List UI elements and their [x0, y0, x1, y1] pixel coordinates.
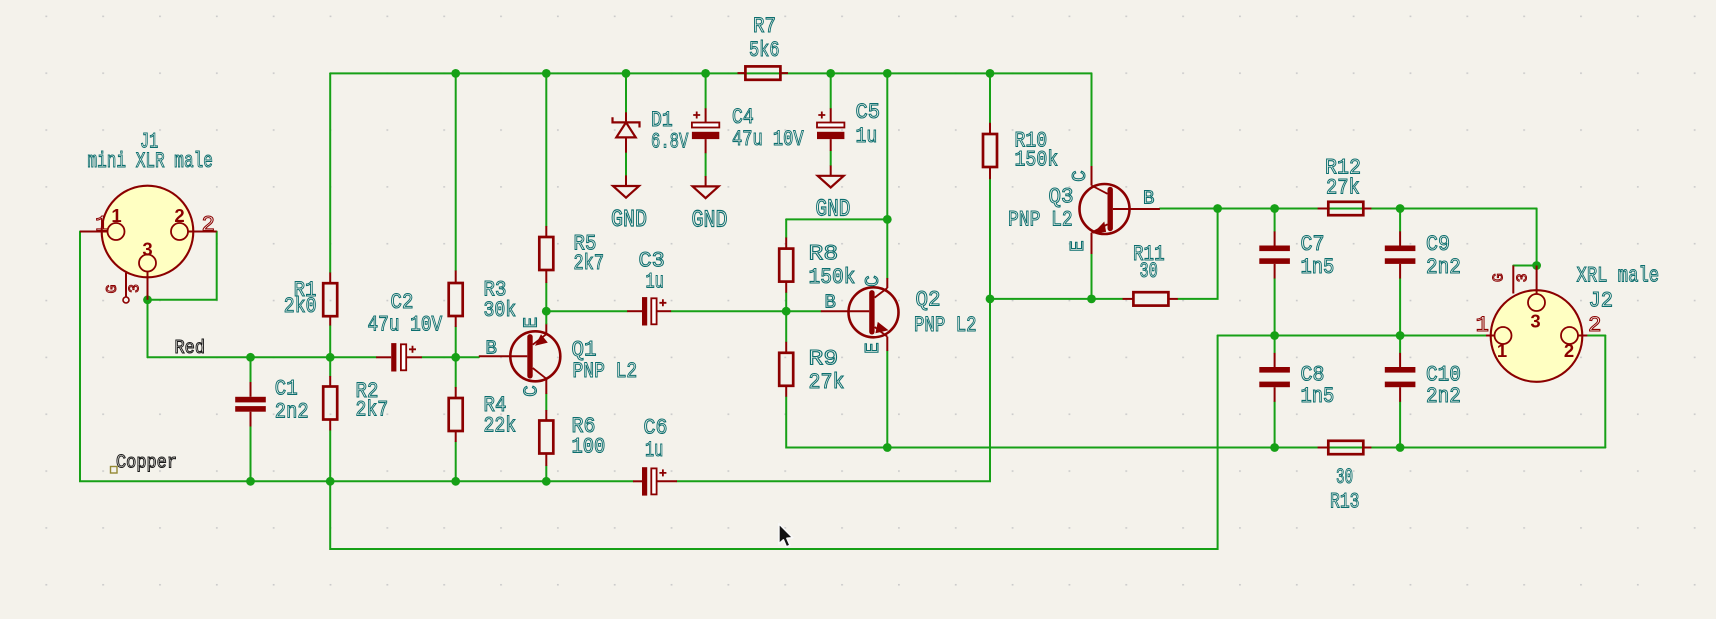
svg-text:G: G	[104, 284, 121, 293]
svg-text:G: G	[1491, 273, 1508, 282]
node R5/Q1E/C3	[542, 307, 551, 316]
node lower bus/C8	[1270, 443, 1279, 452]
svg-text:2: 2	[1564, 340, 1574, 361]
capacitor C7	[1274, 231, 1276, 245]
node Copper/R4	[451, 477, 460, 486]
svg-text:3: 3	[1515, 273, 1532, 282]
svg-text:B: B	[825, 292, 836, 314]
node Q2 base divider	[782, 307, 791, 316]
resistor R13	[1318, 447, 1329, 449]
svg-text:30k: 30k	[484, 298, 517, 323]
node base rail/R11 riser	[1213, 204, 1222, 213]
wire J2 pin2 stub	[1587, 335, 1605, 337]
node Red/C1	[246, 353, 255, 362]
svg-text:1: 1	[1476, 312, 1490, 338]
wire Q3 emitter down	[1091, 254, 1093, 299]
node top/C4	[701, 69, 710, 78]
svg-text:2k7: 2k7	[574, 251, 605, 276]
svg-text:C7: C7	[1301, 232, 1325, 257]
wire D1 to GND	[625, 153, 627, 176]
resistor R6	[545, 410, 547, 421]
svg-text:C1: C1	[275, 377, 298, 402]
wire R6 bottom	[545, 466, 547, 481]
svg-text:2: 2	[202, 212, 216, 238]
node lower bus/Q2E	[883, 443, 892, 452]
svg-text:Q3: Q3	[1049, 185, 1074, 210]
resistor R12	[1318, 208, 1329, 210]
wire Copper net run	[251, 480, 634, 482]
wire C8 top	[1274, 336, 1276, 353]
node top/C5	[826, 69, 835, 78]
wire R5 column upper	[545, 73, 547, 226]
svg-text:PNP L2: PNP L2	[1008, 208, 1073, 233]
node Q3E/R11	[1087, 295, 1096, 304]
capacitor C9	[1399, 231, 1401, 245]
svg-text:C: C	[862, 275, 884, 286]
svg-text:1: 1	[95, 212, 109, 238]
wire C5 top	[830, 73, 832, 108]
J2 pin G	[1512, 266, 1514, 294]
svg-text:150k: 150k	[809, 265, 856, 290]
wire J1 pin3 node down	[147, 300, 149, 358]
svg-text:C5: C5	[856, 100, 881, 125]
capacitor C6	[633, 480, 642, 482]
wire Red net run	[148, 356, 377, 358]
svg-text:150k: 150k	[1015, 148, 1059, 173]
node top/R3	[451, 69, 460, 78]
J1 pin G (open)	[125, 273, 127, 297]
transistor Q1	[510, 331, 560, 381]
node Copper/R6	[542, 477, 551, 486]
wire J2 pin2 drop	[1604, 336, 1606, 448]
svg-text:22k: 22k	[484, 414, 517, 439]
wire C1 bottom	[250, 427, 252, 482]
wire J1 pin1 down left edge	[80, 232, 251, 482]
node mid row/C9C10	[1396, 331, 1405, 340]
node J1 pin2-pin3	[143, 295, 152, 304]
wire C10 bottom	[1399, 402, 1401, 448]
svg-text:1n5: 1n5	[1301, 255, 1335, 280]
node Red/R1R2	[326, 353, 335, 362]
wire R4 bottom	[455, 442, 457, 481]
capacitor C10	[1399, 353, 1401, 367]
svg-text:30: 30	[1140, 259, 1158, 284]
resistor R5	[545, 226, 547, 237]
resistor R10	[989, 123, 991, 134]
svg-text:100: 100	[572, 435, 606, 460]
capacitor C2	[376, 356, 391, 358]
svg-text:2: 2	[1588, 312, 1602, 338]
wire C6 to R10 node riser	[677, 299, 990, 481]
wire R8 top	[785, 219, 787, 237]
wire mid row to J2 pin1	[1218, 335, 1486, 337]
wire C5 to GND	[830, 151, 832, 166]
resistor R1	[329, 273, 331, 284]
svg-text:1n5: 1n5	[1301, 384, 1335, 409]
wire D1 top	[625, 73, 627, 112]
node top/R10	[986, 69, 995, 78]
node R10/R11	[986, 295, 995, 304]
power symbol GND (C5)	[830, 166, 832, 176]
svg-text:2k0: 2k0	[284, 294, 317, 319]
wire R5 bottom to Q1 emitter node	[545, 283, 547, 311]
wire C9 bottom	[1399, 279, 1401, 336]
wire R10 node to R11	[990, 298, 1123, 300]
wire C10 top	[1399, 336, 1401, 353]
J2 pin 3	[1536, 266, 1538, 295]
resistor R2	[329, 376, 331, 387]
wire R9 bottom L-run	[786, 397, 887, 448]
node base rail/C7	[1270, 204, 1279, 213]
svg-text:Copper: Copper	[116, 452, 177, 474]
J1 pin 2	[188, 231, 217, 233]
node Copper/R2	[326, 477, 335, 486]
svg-text:GND: GND	[611, 207, 647, 234]
zener diode D1	[625, 112, 627, 121]
wire long return run bottom	[330, 336, 1217, 550]
capacitor C4	[705, 108, 707, 122]
svg-text:GND: GND	[692, 208, 728, 235]
svg-text:1u: 1u	[646, 270, 664, 295]
wire C3 to Q2 base	[671, 310, 821, 312]
svg-text:J2: J2	[1589, 289, 1614, 314]
svg-text:E: E	[862, 342, 884, 353]
svg-text:E: E	[1067, 240, 1089, 251]
node GND wire/Q2 collector	[883, 215, 892, 224]
wire C7 bottom	[1274, 279, 1276, 336]
capacitor C3	[627, 310, 642, 312]
svg-text:Red: Red	[175, 337, 206, 359]
wire Q2 collector column	[886, 73, 888, 278]
J2 pin 2	[1578, 335, 1587, 337]
svg-text:C: C	[521, 385, 543, 396]
wire Q2 emitter down	[886, 351, 888, 448]
resistor R4	[455, 387, 457, 398]
wire R1 column upper	[329, 73, 331, 272]
svg-text:R7: R7	[753, 14, 776, 39]
svg-text:27k: 27k	[1326, 176, 1360, 201]
svg-text:1: 1	[1497, 340, 1507, 361]
svg-text:C2: C2	[391, 290, 414, 315]
wire J2 ground pin tie	[1513, 265, 1536, 267]
svg-text:GND: GND	[816, 197, 851, 224]
svg-text:PNP L2: PNP L2	[573, 359, 638, 384]
wire Q3 base rail	[1160, 208, 1537, 210]
svg-text:2: 2	[174, 205, 184, 226]
capacitor C1	[250, 382, 252, 397]
wire Q1 collector to R6	[545, 394, 547, 410]
wire base node to R9 top	[785, 311, 787, 342]
wire C1 top	[250, 357, 252, 382]
power symbol GND (D1)	[625, 175, 627, 186]
svg-text:B: B	[1143, 188, 1154, 210]
connector J2	[1491, 290, 1583, 382]
wire C4 to GND	[705, 153, 707, 176]
capacitor C8	[1274, 353, 1276, 367]
node Red/R3R4	[451, 353, 460, 362]
svg-text:5k6: 5k6	[749, 38, 780, 63]
node top/D1	[622, 69, 631, 78]
node Copper/C1	[246, 477, 255, 486]
svg-text:1: 1	[111, 205, 121, 226]
svg-text:2n2: 2n2	[1426, 384, 1461, 409]
wire top supply rail	[330, 72, 1091, 74]
svg-text:mini XLR male: mini XLR male	[88, 149, 213, 174]
capacitor C5	[830, 108, 832, 122]
node base rail/C9	[1396, 204, 1405, 213]
wire R2 bottom	[329, 430, 331, 481]
svg-text:R8: R8	[809, 242, 839, 267]
wire J1 pin2 loop	[148, 232, 217, 300]
resistor R7	[738, 72, 746, 74]
svg-text:E: E	[521, 317, 543, 328]
svg-text:1u: 1u	[856, 124, 878, 149]
node mid row/C7C8	[1270, 331, 1279, 340]
J2 pin 1	[1486, 335, 1495, 337]
wire R4 top	[455, 357, 457, 387]
svg-text:XRL male: XRL male	[1577, 264, 1660, 289]
transistor Q2	[849, 287, 899, 337]
resistor R3	[455, 271, 457, 284]
wire Q1 emitter node to C3	[546, 310, 627, 312]
wire GND net to Q2 collector node	[786, 218, 887, 220]
svg-text:27k: 27k	[809, 370, 845, 395]
wire C7 top	[1274, 209, 1276, 232]
J1 pin 1	[80, 231, 108, 233]
svg-text:2n2: 2n2	[1426, 255, 1461, 280]
svg-text:R13: R13	[1330, 490, 1360, 515]
node lower bus/C10	[1396, 443, 1405, 452]
svg-text:3: 3	[1530, 311, 1540, 332]
wire R1 bottom	[329, 326, 331, 358]
power symbol GND (C4)	[705, 176, 707, 186]
svg-text:30: 30	[1336, 465, 1353, 490]
transistor Q3	[1080, 184, 1130, 234]
wire R10 top	[989, 73, 991, 122]
svg-text:2n2: 2n2	[275, 400, 309, 425]
wire Q3 collector column	[1091, 73, 1093, 166]
node top/Q2C	[883, 69, 892, 78]
wire C4 top	[705, 73, 707, 108]
resistor R11	[1123, 298, 1134, 300]
wire C8 bottom	[1274, 402, 1276, 448]
wire R3 column upper	[455, 73, 457, 270]
wire base rail down to J2 pin3 node	[1536, 209, 1538, 266]
wire R8 bottom to base node	[785, 293, 787, 312]
J1 pin 3	[147, 272, 149, 300]
wire R10 bottom	[989, 179, 991, 299]
svg-text:C9: C9	[1426, 232, 1450, 257]
svg-text:3: 3	[127, 284, 144, 293]
svg-text:6.8V: 6.8V	[651, 130, 689, 155]
svg-text:47u 10V: 47u 10V	[732, 127, 804, 152]
resistor R8	[785, 238, 787, 249]
svg-text:R9: R9	[809, 347, 839, 372]
svg-text:2k7: 2k7	[356, 398, 389, 423]
svg-text:47u 10V: 47u 10V	[368, 313, 443, 338]
wire C2 to Q1 base	[422, 356, 479, 358]
svg-text:PNP L2: PNP L2	[914, 313, 977, 338]
mouse cursor	[779, 524, 793, 547]
resistor R9	[785, 342, 787, 353]
wire R3 bottom	[455, 327, 457, 357]
svg-text:3: 3	[142, 239, 152, 260]
node J2 pin3/G tie	[1532, 261, 1541, 270]
wire C9 top	[1399, 209, 1401, 232]
svg-text:C: C	[1069, 170, 1091, 181]
svg-text:Q2: Q2	[916, 288, 941, 313]
connector J1	[102, 186, 194, 278]
wire lower bus to J2 pin2	[887, 447, 1605, 449]
wire R11 to base rail riser	[1178, 209, 1218, 299]
svg-text:1u: 1u	[645, 438, 663, 463]
wire R2 top	[329, 357, 331, 376]
svg-text:B: B	[486, 338, 497, 360]
node top/R5	[542, 69, 551, 78]
svg-text:C6: C6	[644, 416, 668, 441]
